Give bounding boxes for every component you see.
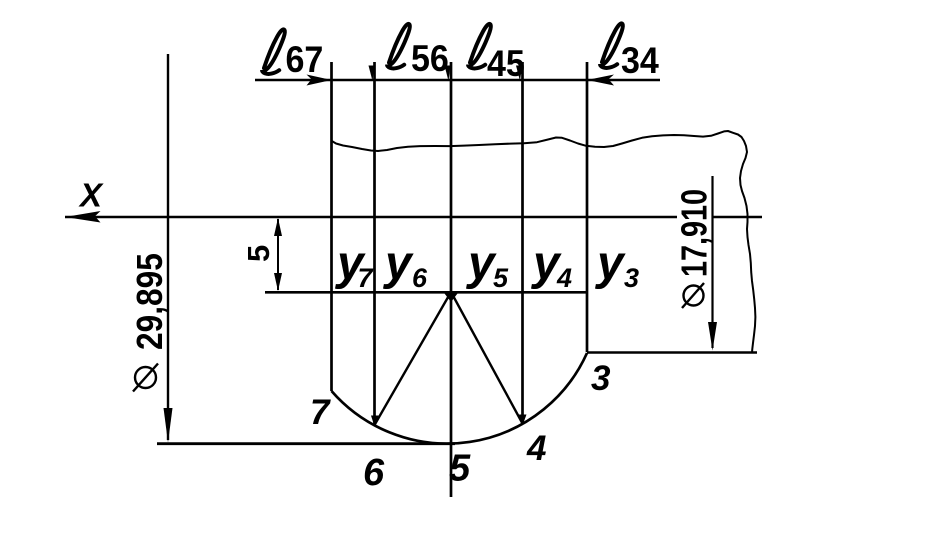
- svg-text:45: 45: [487, 43, 525, 85]
- svg-text:3: 3: [624, 263, 639, 293]
- svg-text:56: 56: [411, 38, 449, 80]
- svg-text:7: 7: [310, 393, 331, 432]
- svg-text:3: 3: [591, 359, 611, 398]
- svg-text:5: 5: [493, 263, 509, 293]
- svg-text:5: 5: [241, 245, 276, 262]
- svg-text:y: y: [383, 237, 414, 290]
- svg-text:5: 5: [449, 448, 471, 490]
- svg-text:29,895: 29,895: [130, 253, 170, 350]
- svg-text:34: 34: [621, 40, 659, 82]
- svg-text:6: 6: [363, 452, 385, 494]
- svg-text:7: 7: [358, 263, 375, 293]
- svg-text:4: 4: [556, 263, 572, 293]
- svg-text:6: 6: [412, 263, 428, 293]
- svg-text:X: X: [78, 177, 104, 214]
- svg-text:4: 4: [526, 429, 546, 468]
- svg-text:17,910: 17,910: [673, 189, 714, 277]
- svg-text:67: 67: [286, 39, 324, 81]
- svg-text:y: y: [595, 237, 626, 290]
